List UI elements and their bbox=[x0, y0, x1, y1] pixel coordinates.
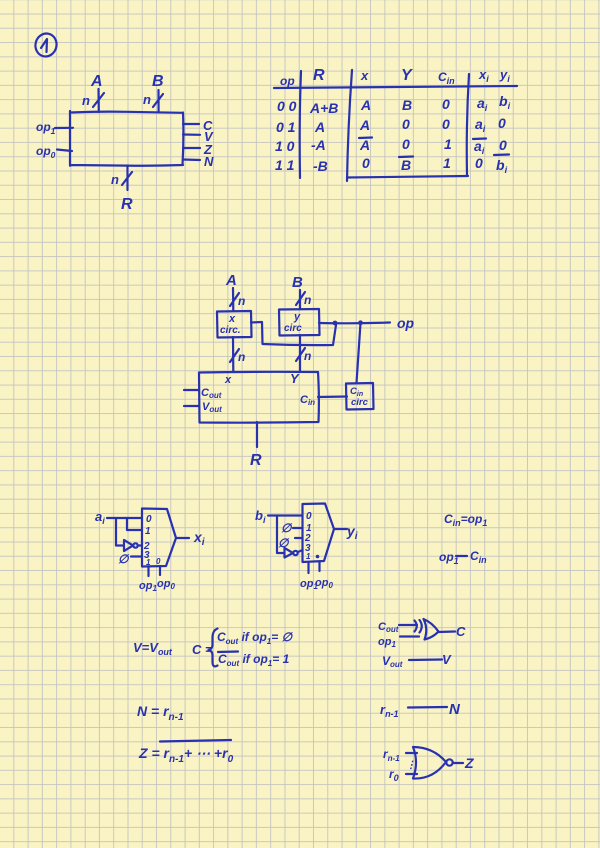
svg-text:Y: Y bbox=[290, 371, 300, 386]
select wire op0 bbox=[159, 566, 161, 575]
svg-text:0: 0 bbox=[146, 514, 152, 525]
inverter for input3 bbox=[285, 548, 294, 558]
svg-text:N: N bbox=[449, 701, 461, 718]
svg-text:0 0: 0 0 bbox=[277, 98, 297, 114]
wire op to cin-circ bbox=[357, 323, 361, 383]
bus slash R (n bits) bbox=[122, 172, 132, 185]
wire yi output bbox=[334, 528, 347, 530]
overbar B row4 bbox=[399, 155, 413, 158]
svg-text:B: B bbox=[401, 157, 411, 173]
bus slash xn bbox=[230, 349, 239, 362]
svg-text:n: n bbox=[238, 294, 245, 308]
svg-text:∅: ∅ bbox=[281, 521, 293, 535]
table column separator R|x bbox=[347, 70, 352, 181]
mux yi body bbox=[303, 504, 335, 563]
wire B to y-circ bbox=[299, 290, 301, 309]
table column separator op|R bbox=[300, 71, 301, 178]
overbar bi row4 bbox=[494, 153, 509, 156]
svg-text:0: 0 bbox=[475, 155, 483, 171]
svg-text:n: n bbox=[143, 92, 151, 107]
wire Vout stub bbox=[184, 405, 199, 407]
wire output Z bbox=[183, 147, 200, 149]
svg-text:1: 1 bbox=[444, 136, 452, 152]
row3: 10 -A Abar 0 1 aibar 0 bbox=[275, 136, 507, 156]
row2: 01 A A 0 0 ai 0 bbox=[276, 115, 506, 135]
svg-text:1: 1 bbox=[146, 558, 151, 567]
bus slash A (n bits) bbox=[93, 93, 104, 107]
wire xor input 1 bbox=[399, 624, 417, 626]
svg-text:A: A bbox=[225, 272, 237, 289]
svg-text:x: x bbox=[224, 374, 232, 386]
wire Cout stub bbox=[184, 389, 199, 391]
wire xi output bbox=[176, 537, 189, 539]
svg-text:A: A bbox=[359, 117, 370, 133]
svg-text:0: 0 bbox=[499, 137, 507, 153]
wire output C bbox=[183, 123, 199, 125]
adder block bbox=[199, 372, 319, 423]
Cin circuit block bbox=[346, 383, 374, 410]
svg-text:y: y bbox=[293, 311, 301, 323]
svg-text:Y: Y bbox=[401, 67, 413, 84]
wire inverter to input3 bbox=[298, 550, 303, 552]
svg-text:0: 0 bbox=[442, 96, 450, 112]
overbar ai row3 bbox=[473, 137, 486, 140]
wire branch bi to inverter bbox=[277, 516, 285, 554]
function table header rule bbox=[274, 86, 517, 88]
svg-text:V: V bbox=[442, 652, 452, 667]
wire nor input 2 bbox=[406, 773, 417, 775]
wire branch to input1 bbox=[127, 518, 142, 530]
svg-text:circ: circ bbox=[351, 397, 369, 408]
wire nor output bbox=[453, 762, 463, 764]
ALU block U1 bbox=[70, 111, 183, 166]
wire A input bbox=[97, 89, 100, 112]
select wire op0 (yi) bbox=[318, 562, 320, 571]
y circuit block bbox=[279, 309, 320, 336]
svg-text:R: R bbox=[250, 452, 262, 469]
wire adder Cin bbox=[318, 395, 347, 398]
nor gate U3 bbox=[413, 747, 446, 779]
svg-text:0: 0 bbox=[442, 116, 450, 132]
wire inverter to input2 bbox=[138, 544, 142, 546]
nor bubble bbox=[446, 759, 452, 765]
bus slash A n bbox=[230, 293, 239, 306]
wire op1 bbox=[55, 127, 73, 129]
svg-text:∅: ∅ bbox=[118, 552, 130, 566]
bus slash B n bbox=[296, 292, 305, 305]
svg-text:0: 0 bbox=[306, 511, 312, 522]
wire A to x-circ bbox=[232, 288, 235, 311]
svg-text:x: x bbox=[360, 68, 369, 83]
svg-text:n: n bbox=[111, 172, 119, 187]
select wire op1 bbox=[147, 567, 149, 576]
wire xor input 2 bbox=[400, 635, 419, 637]
svg-text:1: 1 bbox=[306, 552, 311, 561]
problem number 1 circled bbox=[33, 31, 59, 58]
bus slash yn bbox=[296, 348, 305, 361]
junction dot 2 bbox=[358, 320, 363, 325]
wire output N bbox=[183, 158, 200, 161]
xor gate U2 bbox=[415, 619, 439, 640]
svg-text:1 1: 1 1 bbox=[275, 157, 295, 173]
svg-text:B: B bbox=[402, 97, 412, 113]
case brace bbox=[209, 629, 218, 667]
wire output R bbox=[126, 166, 128, 191]
svg-text:circ: circ bbox=[284, 323, 302, 334]
row4: 11 -B 0 Bbar 1 0 bibar bbox=[275, 155, 508, 175]
overbar A row3 bbox=[359, 136, 372, 139]
svg-text:0: 0 bbox=[498, 115, 506, 131]
row1: 00 A+B A B 0 ai bi bbox=[277, 93, 511, 116]
svg-text:Z: Z bbox=[464, 755, 474, 771]
svg-text:Cin=op1: Cin=op1 bbox=[444, 512, 487, 528]
svg-text:n: n bbox=[304, 293, 311, 307]
svg-text:R: R bbox=[121, 196, 133, 213]
wire x-circ to adder bbox=[232, 337, 235, 372]
svg-text:circ.: circ. bbox=[220, 325, 241, 336]
svg-text:A+B: A+B bbox=[309, 100, 338, 116]
svg-text:A: A bbox=[314, 119, 325, 135]
table column separator Cin|xy bbox=[467, 74, 469, 175]
table bottom rule bbox=[347, 176, 468, 178]
svg-text:B: B bbox=[152, 73, 164, 90]
wire bi to input0 bbox=[268, 514, 303, 516]
svg-text:n: n bbox=[82, 93, 90, 108]
svg-text:n: n bbox=[238, 350, 245, 364]
svg-text:0 1: 0 1 bbox=[276, 119, 296, 135]
x circuit block bbox=[217, 311, 252, 338]
svg-text:x: x bbox=[228, 313, 236, 325]
inverter for input2 bbox=[124, 540, 133, 551]
wire result R bbox=[256, 422, 258, 447]
wire y-circ to adder bbox=[299, 335, 301, 372]
wire op0 bbox=[57, 150, 72, 152]
svg-text:A: A bbox=[360, 97, 371, 113]
svg-text:1: 1 bbox=[443, 155, 451, 171]
svg-text:1 0: 1 0 bbox=[275, 138, 295, 154]
wire xor output bbox=[438, 630, 455, 633]
wire ai to input0 bbox=[107, 517, 142, 519]
bus slash B (n bits) bbox=[153, 94, 163, 107]
svg-text:-A: -A bbox=[311, 137, 326, 153]
svg-text:C: C bbox=[456, 624, 466, 639]
svg-text:A: A bbox=[90, 73, 103, 90]
wire branch to inverter bbox=[116, 518, 124, 546]
svg-text:0: 0 bbox=[362, 155, 370, 171]
wire output V bbox=[183, 133, 200, 136]
wire nor input 1 bbox=[406, 752, 417, 754]
svg-text:op: op bbox=[280, 74, 295, 88]
wire op bus bbox=[319, 321, 390, 324]
svg-text:op: op bbox=[397, 315, 415, 331]
svg-text:0: 0 bbox=[402, 116, 410, 132]
mux xi body bbox=[142, 509, 176, 567]
svg-text:0: 0 bbox=[156, 557, 161, 566]
select wire op1 (yi) bbox=[307, 563, 309, 573]
svg-text:N: N bbox=[204, 154, 214, 169]
junction dot 1 bbox=[333, 321, 338, 326]
wire B input bbox=[157, 90, 159, 112]
svg-text:B: B bbox=[292, 274, 303, 291]
svg-text:0: 0 bbox=[402, 136, 410, 152]
svg-text:1: 1 bbox=[145, 526, 151, 537]
svg-text:A: A bbox=[359, 137, 370, 153]
svg-text:-B: -B bbox=[313, 158, 328, 174]
overbar Z formula bbox=[160, 740, 231, 742]
svg-text:R: R bbox=[313, 67, 325, 84]
svg-text:n: n bbox=[304, 349, 311, 363]
overbar Cout (case 2) bbox=[218, 650, 238, 653]
wire x-circ to op bbox=[251, 322, 336, 345]
